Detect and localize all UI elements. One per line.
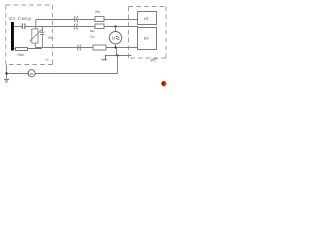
wire lower rail (y47.3) to instrument box bbox=[35, 47, 138, 49]
wire generator rail right segment bbox=[35, 73, 118, 75]
generator G (circle) bbox=[28, 70, 35, 77]
svg-text:U: U bbox=[112, 36, 116, 42]
chassis ground GND2 bbox=[101, 56, 106, 60]
svg-text:Rнг: Rнг bbox=[95, 10, 101, 14]
watermark blob bbox=[161, 81, 166, 87]
svg-text:ИП: ИП bbox=[151, 58, 158, 63]
wire generator rail left segment bbox=[7, 73, 28, 75]
measuring instrument dashed enclosure IP bbox=[129, 7, 167, 59]
wire node A (y26) capacitor to instrument box bbox=[25, 26, 138, 28]
resistor Rvn bbox=[16, 48, 28, 51]
wire membrane bottom to resistor Rvn bbox=[14, 48, 16, 50]
wire upper (y19) to amplifier IT bbox=[36, 19, 138, 21]
svg-text:Rвн: Rвн bbox=[18, 53, 24, 57]
earth ground GND1 bbox=[4, 74, 9, 83]
connector X2 node A wire bbox=[74, 24, 78, 30]
wire shield rail (y55.5) bbox=[105, 55, 132, 57]
wire vertical x117 shield rail to generator rail bbox=[117, 56, 119, 74]
capacitor Cb branch: lower plate to lower rail bbox=[41, 34, 43, 47]
svg-text:Rвх: Rвх bbox=[90, 29, 96, 33]
capacitor Cb branch: node A to upper plate bbox=[41, 27, 43, 33]
node dot on shield rail bbox=[116, 54, 118, 56]
amplifier block VU bbox=[138, 28, 157, 50]
node dot on wire A bbox=[114, 25, 116, 27]
capacitor Cb plates bbox=[40, 32, 44, 34]
wire membrane to capacitor C1 bbox=[14, 26, 22, 28]
wire Rvn to jog bbox=[28, 48, 42, 49]
resistor R2 node A wire bbox=[95, 24, 104, 29]
wire meter bottom stub bbox=[115, 44, 117, 48]
capacitor C1 plates bbox=[22, 23, 25, 29]
millivoltmeter U~ bbox=[109, 32, 121, 44]
resistor Rng upper bbox=[95, 17, 104, 22]
node dot ground junction bbox=[5, 72, 7, 74]
svg-text:ВУ: ВУ bbox=[144, 36, 150, 41]
wire meter top stub bbox=[115, 27, 117, 32]
wire shield drop from enclosure bbox=[6, 65, 8, 74]
wire stub C0 bottom to lower rail bbox=[34, 44, 36, 48]
svg-text:ЗА Смер: ЗА Смер bbox=[9, 16, 32, 21]
resistor R3 lower rail bbox=[93, 45, 106, 50]
amplifier block IT bbox=[138, 12, 157, 25]
svg-text:ИТ: ИТ bbox=[144, 16, 150, 21]
svg-text:Свх: Свх bbox=[90, 35, 96, 39]
svg-text:ю: ю bbox=[48, 35, 52, 40]
wire vertical lower rail to shield rail bbox=[116, 48, 118, 56]
connector X1 upper wire bbox=[74, 16, 78, 22]
node dot on lower rail bbox=[114, 46, 116, 48]
svg-text:Uэг: Uэг bbox=[28, 72, 34, 76]
connector X3 lower rail bbox=[77, 45, 81, 51]
microphone membrane electrode (thick bar) bbox=[11, 22, 14, 51]
variable capacitor C0 (slashed rectangle) bbox=[30, 29, 43, 43]
wire vertical stub x36 joining upper wire and node A bbox=[35, 20, 37, 29]
svg-text:ок: ок bbox=[46, 58, 50, 62]
microphone capsule dashed enclosure BM bbox=[6, 5, 53, 65]
